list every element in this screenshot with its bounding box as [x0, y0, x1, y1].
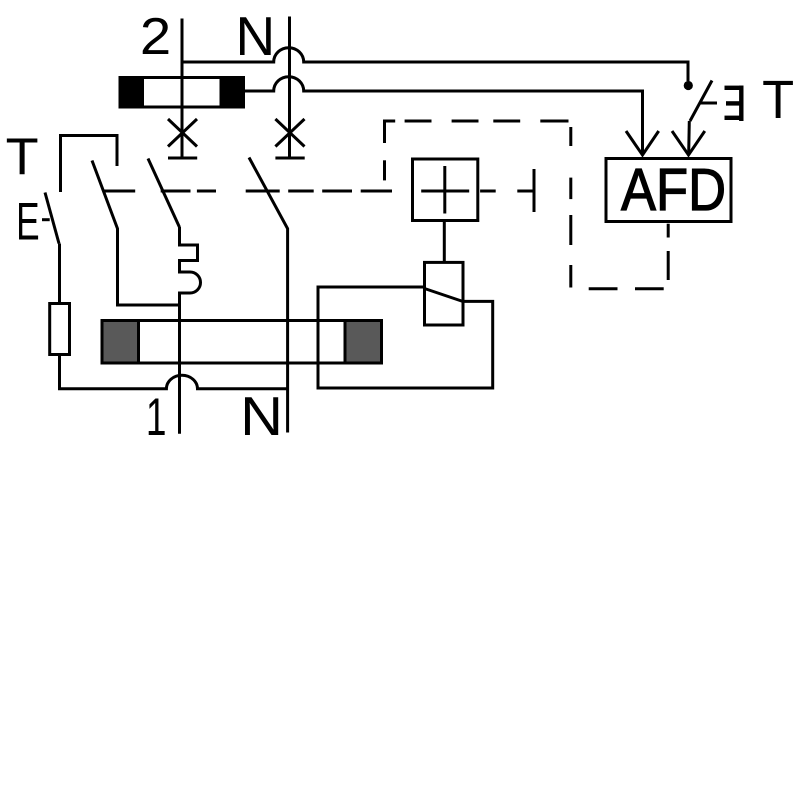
svg-text:T: T	[762, 70, 794, 130]
arrow into AFD (right)	[672, 131, 705, 155]
svg-text:AFD: AFD	[621, 157, 726, 223]
switch blade (neutral pole)	[249, 158, 288, 433]
blade actuator tick	[700, 102, 717, 105]
push button symbol (reversed E)	[725, 86, 744, 121]
overcurrent element and wire down to terminal 1	[180, 227, 201, 434]
dashed trip signal branch (up from linkage)	[385, 121, 396, 180]
wire: bottom test line to N (hops over line 1)	[58, 375, 288, 389]
switch blade (aux pole, left)	[92, 161, 180, 306]
trip contact X (neutral pole)	[275, 119, 304, 158]
svg-text:N: N	[240, 386, 283, 447]
trip coil circuit loop box	[318, 287, 493, 388]
svg-text:1: 1	[146, 388, 167, 447]
AFD unit box	[606, 159, 731, 222]
E test switch blade	[45, 193, 59, 244]
svg-text:E: E	[16, 193, 39, 252]
svg-text:N: N	[236, 5, 276, 67]
residual current toroid bar (bottom, grey ends)	[102, 321, 382, 364]
switch blade (phase pole)	[148, 159, 180, 228]
node: junction dot at T-switch	[684, 81, 693, 90]
wire: blade to resistor	[58, 244, 61, 304]
dashed link to AFD output	[667, 224, 670, 280]
wire: phase terminal 2 vertical	[181, 19, 184, 159]
svg-text:T: T	[6, 129, 39, 187]
T terminal bracket (top left)	[61, 136, 118, 193]
dashed trip signal vertical run	[569, 127, 572, 288]
svg-text:2: 2	[140, 8, 171, 66]
current transformer primary bar (top, black ends)	[119, 76, 245, 109]
wire: AFD feed line from CT bar (hops over N)	[244, 77, 643, 153]
test resistor	[50, 304, 70, 355]
dashed trip signal horizontal run	[405, 120, 569, 123]
relay / trip coil box with diagonal	[425, 262, 464, 325]
arrow into AFD (left)	[626, 131, 659, 155]
T test switch blade (top right)	[690, 81, 712, 122]
wire: test button to relay	[443, 221, 446, 263]
linkage end stop bar	[533, 169, 536, 212]
test button box with cross	[413, 159, 478, 221]
mechanical linkage (dashed)	[103, 190, 532, 193]
wire: resistor down	[58, 355, 61, 388]
wire: top feed line from 2 to T-switch (hops over N)	[182, 48, 688, 81]
dashed trip signal bottom run	[589, 287, 664, 290]
trip contact X (phase pole)	[168, 119, 197, 158]
E terminal tick	[42, 218, 50, 221]
wire: neutral terminal N vertical (top)	[288, 17, 291, 159]
wire: blade down to AFD	[687, 121, 691, 153]
